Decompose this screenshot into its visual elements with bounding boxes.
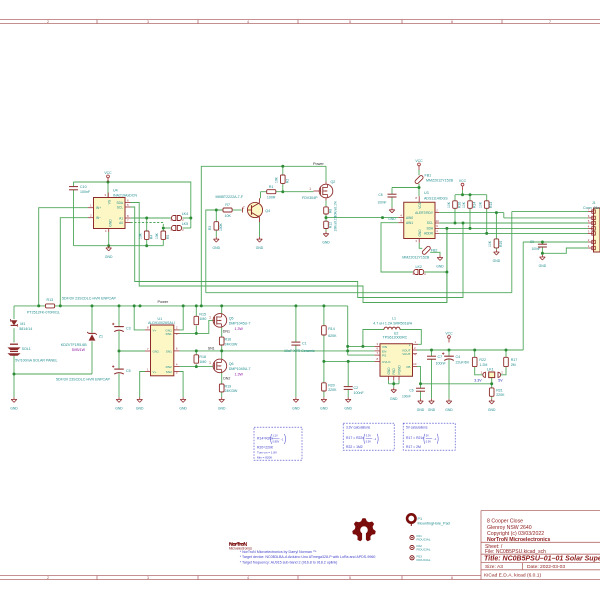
- wire R5 leads: [162, 228, 164, 246]
- svg-text:R17 = R22x: R17 = R22x: [346, 436, 364, 440]
- svg-text:SCL: SCL: [427, 221, 433, 225]
- ground at R12: [325, 232, 327, 234]
- svg-text:SN1: SN1: [166, 349, 172, 353]
- svg-text:100nF: 100nF: [436, 362, 447, 366]
- svg-text:R15: R15: [199, 312, 206, 316]
- svg-text:SCL: SCL: [117, 206, 123, 210]
- svg-text:GND: GND: [418, 229, 422, 237]
- jumper LK1: [474, 368, 503, 383]
- wire U2 ground pins: [389, 380, 400, 387]
- op-amp U3 ADS1114: [404, 191, 448, 238]
- wire R2 leads: [282, 166, 284, 191]
- svg-text:0.5V: 0.5V: [366, 439, 372, 443]
- svg-text:VIN: VIN: [382, 345, 387, 349]
- svg-text:4: 4: [247, 20, 249, 24]
- resistor R22: [472, 357, 487, 367]
- resistor R8: [324, 201, 338, 217]
- svg-text:R14: R14: [328, 327, 335, 331]
- wire ADDR row to J1 pin 3: [439, 232, 588, 234]
- ferrite bead FB2: [402, 246, 437, 260]
- svg-text:3: 3: [147, 576, 149, 580]
- wire enable net long run: [206, 292, 512, 294]
- svg-text:FB: FB: [407, 365, 411, 369]
- svg-text:5814/14: 5814/14: [19, 327, 32, 331]
- resistor R2: [275, 175, 290, 183]
- wire FB network row: [417, 366, 492, 383]
- resistor R4: [139, 231, 154, 239]
- svg-text:100nF: 100nF: [531, 247, 540, 251]
- svg-text:VCC: VCC: [445, 331, 453, 335]
- resistor R19: [219, 384, 237, 393]
- svg-text:GND: GND: [10, 406, 18, 410]
- wire SCL net U4 to U3/J1: [131, 207, 464, 298]
- resistor R3: [208, 222, 223, 231]
- svg-text:GND: GND: [493, 259, 501, 263]
- svg-text:GND: GND: [136, 406, 144, 410]
- svg-text:R17 = 2M: R17 = 2M: [406, 445, 421, 449]
- svg-text:100R: 100R: [267, 196, 276, 200]
- svg-text:Glenroy NSW 2640: Glenroy NSW 2640: [487, 525, 532, 531]
- svg-text:A1: A1: [119, 216, 123, 220]
- wire R25 leads: [495, 213, 497, 250]
- wire R18 leads: [195, 351, 197, 367]
- svg-text:V+: V+: [153, 328, 157, 332]
- pin stubs U3: [398, 196, 439, 243]
- wire R17 to LK1 right: [501, 350, 506, 375]
- svg-text:IN+: IN+: [96, 206, 101, 210]
- wire LK1 center to FB node: [491, 378, 493, 384]
- svg-text:J1: J1: [592, 201, 596, 205]
- wire VCC rail U4 section: [74, 182, 191, 228]
- wire DN2 row to Q6 gate: [180, 366, 213, 368]
- svg-text:VDD: VDD: [418, 201, 422, 208]
- svg-text:GN2: GN2: [153, 349, 160, 353]
- wire ALERT row jog to J1 pin 6: [439, 213, 588, 218]
- calculation note box 3.3V: [343, 423, 394, 450]
- svg-text:Q2: Q2: [331, 180, 336, 184]
- svg-text:Date: 2022-03-03: Date: 2022-03-03: [527, 564, 565, 570]
- svg-text:PT2512FK-070R01L: PT2512FK-070R01L: [27, 311, 60, 315]
- svg-text:GND: GND: [179, 406, 187, 410]
- wire C6 leads: [420, 384, 422, 399]
- svg-text:R26: R26: [457, 202, 461, 208]
- wire C7 leads: [431, 350, 433, 399]
- fiducial F03: [410, 554, 431, 561]
- wire Z1 leads: [91, 306, 93, 374]
- svg-text:DMP1045U-7: DMP1045U-7: [229, 367, 251, 371]
- svg-text:R1: R1: [269, 185, 274, 189]
- svg-text:GND: GND: [344, 406, 352, 410]
- svg-text:MMBT2222A-7-F: MMBT2222A-7-F: [216, 195, 244, 199]
- wire Q6 drain to R19 to GND: [221, 372, 223, 397]
- svg-text:C5: C5: [126, 369, 131, 373]
- svg-text:TPS61200DRC: TPS61200DRC: [383, 336, 408, 340]
- svg-text:C6: C6: [409, 389, 413, 393]
- wire C1 leads: [295, 306, 297, 397]
- svg-text:220K: 220K: [496, 393, 505, 397]
- svg-text:SDA: SDA: [426, 227, 433, 231]
- ground at R19: [221, 397, 223, 399]
- svg-text:C1: C1: [302, 342, 307, 346]
- wire Q6 source to SN1: [221, 351, 223, 360]
- wire GN2 row: [119, 350, 145, 352]
- power VCC pullups: [462, 186, 464, 190]
- svg-text:MountingHole_Pad: MountingHole_Pad: [418, 522, 450, 526]
- ground at U4: [108, 246, 110, 248]
- svg-text:6: 6: [451, 20, 453, 24]
- svg-text:FB2: FB2: [431, 249, 438, 253]
- wire A1 row to LK4: [131, 217, 171, 219]
- capacitor C2: [344, 386, 365, 395]
- wire LK2 strap vertical: [446, 228, 448, 302]
- svg-text:10K: 10K: [462, 201, 466, 208]
- svg-text:Conn_01x: Conn_01x: [583, 206, 600, 210]
- svg-text:5V/100mA SOLAR PANEL: 5V/100mA SOLAR PANEL: [15, 358, 57, 362]
- ground at solar: [13, 397, 15, 399]
- wire SN1 row: [180, 350, 348, 352]
- svg-text:PS: PS: [382, 354, 386, 358]
- svg-text:0.85V: 0.85V: [273, 440, 280, 444]
- svg-text:R8: R8: [328, 209, 332, 213]
- svg-text:R2: R2: [286, 179, 290, 183]
- capacitor C7: [427, 355, 446, 366]
- logo NorTroN: [229, 542, 252, 551]
- svg-text:2: 2: [47, 576, 49, 580]
- wire Power bottom rail: [14, 305, 348, 307]
- wire Q4 collector: [260, 192, 262, 199]
- svg-text:GND: GND: [320, 406, 328, 410]
- wire U1 V- to GND: [140, 372, 145, 398]
- ground at FB2: [439, 255, 441, 257]
- resistor R18: [194, 355, 206, 364]
- wire Q4 base drive: [206, 210, 242, 293]
- svg-text:10K: 10K: [488, 240, 492, 247]
- wire R21 leads: [491, 384, 493, 399]
- notes text: [240, 550, 376, 565]
- ground at C5: [118, 397, 120, 399]
- ground at C7: [431, 399, 433, 401]
- wire R12 to GND: [325, 229, 327, 232]
- wire Power top rail: [201, 166, 326, 306]
- svg-text:ALD910026SALI: ALD910026SALI: [148, 321, 175, 325]
- svg-text:IN−: IN−: [96, 216, 101, 220]
- svg-text:10K: 10K: [155, 232, 159, 239]
- wire R4 leads: [146, 218, 148, 246]
- svg-text:R23: R23: [489, 202, 493, 208]
- svg-text:Q4: Q4: [265, 209, 270, 213]
- svg-text:GND: GND: [115, 406, 123, 410]
- svg-text:FDV304P: FDV304P: [302, 196, 318, 200]
- ground at C2: [347, 397, 349, 399]
- jumper LK2: [414, 270, 418, 275]
- svg-text:LK1: LK1: [487, 368, 494, 372]
- svg-text:UVLO: UVLO: [382, 360, 391, 364]
- svg-text:* Target frequency: AU915 sub-: * Target frequency: AU915 sub-band 2 (91…: [240, 561, 338, 565]
- ground at Q4 emitter: [259, 237, 261, 239]
- svg-text:R5: R5: [166, 235, 170, 239]
- svg-text:10K: 10K: [275, 176, 279, 183]
- svg-text:DN2: DN2: [223, 377, 230, 381]
- svg-text:10: 10: [435, 219, 439, 223]
- wire U1 V+ top to Power: [134, 306, 145, 330]
- wire Q2 source to Power: [325, 166, 327, 181]
- wire R8-R12 node AIN0 row: [326, 214, 398, 221]
- wire J1 pin 7 enable drop: [512, 212, 588, 293]
- svg-text:Title: NC0B5PSU–01–01 Solar Su: Title: NC0B5PSU–01–01 Solar Super: [484, 556, 600, 563]
- svg-text:MMZ2012Y152B: MMZ2012Y152B: [426, 179, 454, 183]
- wire U4 GND row: [74, 232, 164, 246]
- svg-text:100K: 100K: [219, 222, 223, 231]
- wire R26 to SCL row: [454, 208, 456, 223]
- capacitor C3: [62, 297, 131, 332]
- ground at R21: [491, 399, 493, 401]
- svg-text:GND: GND: [445, 408, 453, 412]
- svg-text:100nF: 100nF: [354, 391, 365, 395]
- svg-text:FIDUCIAL: FIDUCIAL: [417, 558, 431, 562]
- svg-text:5DF/3V 23SCDLC-HVR ENPCAP: 5DF/3V 23SCDLC-HVR ENPCAP: [56, 378, 111, 382]
- calculation note box 5V: [403, 423, 455, 450]
- svg-text:R16: R16: [225, 338, 232, 342]
- wire L1 loop: [363, 330, 421, 347]
- svg-text:VAUX: VAUX: [402, 352, 410, 356]
- wire Q2 drain to R8: [325, 201, 327, 207]
- svg-text:2M: 2M: [511, 363, 516, 367]
- svg-text:C4: C4: [456, 355, 461, 359]
- svg-text:KiCad E.D.A. kicad (6.0.1): KiCad E.D.A. kicad (6.0.1): [484, 573, 541, 579]
- mounting hole P1: [407, 514, 450, 526]
- svg-text:GND: GND: [292, 406, 300, 410]
- wire C8 to VDD net: [392, 188, 419, 208]
- resistor R5: [155, 231, 170, 239]
- svg-text:R7: R7: [225, 203, 230, 207]
- wire Q5 drain to R16 to SN1: [221, 327, 223, 351]
- wire R24 to SDA row: [469, 208, 471, 228]
- transistor Q2 FDV304P: [302, 180, 335, 200]
- svg-text:C8: C8: [378, 193, 382, 197]
- resistor R17: [504, 357, 518, 367]
- connector J1: [583, 201, 600, 252]
- power VCC at VOUT: [448, 338, 450, 342]
- wire C5 leads: [118, 351, 120, 397]
- resistor R1: [267, 185, 276, 200]
- svg-text:ADDR: ADDR: [424, 232, 434, 236]
- wire R23 to ADDR row: [486, 208, 488, 233]
- op-amp U1 ALD910026: [148, 317, 175, 376]
- ground at U1 V-: [139, 397, 141, 399]
- wire R22 to LK1 left: [475, 350, 483, 375]
- resistor R25: [488, 239, 503, 248]
- title block: [481, 511, 600, 580]
- svg-text:100nF: 100nF: [377, 201, 386, 205]
- svg-text:U3: U3: [424, 191, 429, 195]
- svg-text:24K/3W: 24K/3W: [225, 342, 238, 346]
- svg-text:GND: GND: [256, 246, 264, 250]
- svg-text:10K: 10K: [224, 214, 231, 218]
- svg-text:R22 = 1M2: R22 = 1M2: [346, 445, 363, 449]
- svg-text:3.3V: 3.3V: [366, 433, 372, 437]
- resistor R13 shunt: [27, 298, 60, 314]
- svg-text:10K: 10K: [139, 232, 143, 239]
- resistor R7: [223, 203, 232, 218]
- svg-text:1M0: 1M0: [199, 317, 206, 321]
- svg-text:R25: R25: [499, 241, 503, 247]
- resistor R26: [447, 201, 462, 209]
- wire IN- to shunt right: [60, 218, 88, 306]
- svg-text:PAD: PAD: [392, 367, 396, 374]
- jumper LK4: [172, 216, 176, 221]
- svg-text:ALERT/RDY: ALERT/RDY: [415, 211, 434, 215]
- svg-text:GND: GND: [322, 241, 330, 245]
- svg-text:Turn-on = 1.8V: Turn-on = 1.8V: [257, 451, 277, 455]
- svg-text:6: 6: [451, 576, 453, 580]
- svg-text:1: 1: [309, 187, 311, 191]
- svg-text:10K: 10K: [447, 201, 451, 208]
- capacitor C5: [56, 365, 131, 381]
- svg-text:LK5: LK5: [182, 222, 188, 226]
- svg-text:GND: GND: [218, 406, 226, 410]
- svg-text:620K: 620K: [328, 334, 337, 338]
- svg-text:LK4: LK4: [182, 212, 188, 216]
- svg-text:100nF: 100nF: [80, 190, 91, 194]
- resistor R24: [462, 201, 477, 209]
- svg-text:KDZVTF1R5.6B: KDZVTF1R5.6B: [61, 343, 88, 347]
- wire GN1 to Power: [180, 306, 184, 330]
- ground at R3: [215, 237, 217, 239]
- svg-text:GND: GND: [428, 408, 436, 412]
- op-amp U4 INA219: [94, 188, 138, 228]
- svg-text:R21: R21: [496, 388, 503, 392]
- svg-text:Z1: Z1: [99, 334, 103, 338]
- wire VIN EN PS strap: [348, 306, 375, 355]
- svg-text:1.3W: 1.3W: [235, 373, 244, 377]
- wire VOUT rail: [417, 349, 523, 351]
- svg-text:GND: GND: [488, 408, 496, 412]
- svg-text:R20=220K: R20=220K: [257, 446, 274, 450]
- svg-text:R22: R22: [479, 358, 486, 362]
- wire Q5 source to Power: [221, 306, 223, 314]
- svg-text:* NorTroN Microelectronics by: * NorTroN Microelectronics by Darryl Nor…: [240, 550, 317, 554]
- svg-text:SOL1: SOL1: [22, 347, 31, 351]
- wire LK5 right to VCC drop: [182, 227, 190, 229]
- svg-text:3.3V calculations: 3.3V calculations: [346, 425, 371, 429]
- svg-text:DMP1045U-7: DMP1045U-7: [229, 322, 251, 326]
- svg-text:GND: GND: [388, 217, 396, 221]
- svg-text:8 Cooper Close: 8 Cooper Close: [487, 519, 523, 525]
- svg-text:DN1: DN1: [166, 332, 172, 336]
- svg-text:3: 3: [147, 20, 149, 24]
- fiducial F02: [410, 544, 431, 551]
- wire C3 leads: [118, 306, 120, 351]
- svg-text:R4: R4: [150, 235, 154, 239]
- wire C9 leads and J1 pin1: [542, 242, 588, 255]
- svg-text:10K: 10K: [479, 201, 483, 208]
- wire C10 leads: [73, 182, 75, 246]
- transistor Q6 DMP1045U: [209, 359, 250, 376]
- power VCC at U4: [107, 178, 109, 182]
- svg-text:VCC: VCC: [459, 179, 467, 183]
- wire AIN1 to LK2: [381, 223, 447, 272]
- svg-text:L: L: [409, 343, 411, 347]
- wire SDA row to J1 pin 4: [439, 227, 588, 229]
- wire A0 dashed to LK5: [131, 223, 171, 229]
- svg-text:AIN1: AIN1: [406, 221, 413, 225]
- capacitor C8: [377, 193, 396, 205]
- wire SDA net U4 to U3/J1: [131, 203, 447, 303]
- svg-text:1M0: 1M0: [199, 360, 206, 364]
- svg-text:C10: C10: [80, 185, 87, 189]
- svg-text:MMZ2012Y152B: MMZ2012Y152B: [402, 255, 430, 259]
- ground at C8: [391, 208, 393, 210]
- svg-text:10: 10: [413, 362, 417, 366]
- svg-text:DN2: DN2: [166, 365, 172, 369]
- svg-text:FIDUCIAL: FIDUCIAL: [417, 548, 431, 552]
- transistor Q4: [216, 195, 271, 222]
- svg-text:U4: U4: [113, 188, 118, 192]
- svg-text:FIDUCIAL: FIDUCIAL: [417, 538, 431, 542]
- pin stubs U1: [145, 326, 180, 375]
- svg-text:Q6: Q6: [229, 362, 234, 366]
- wire R3 leads: [215, 210, 217, 237]
- resistor R12: [324, 215, 338, 231]
- gear logo: [352, 518, 375, 541]
- resistor R23: [479, 201, 494, 209]
- svg-text:1.2M: 1.2M: [479, 363, 487, 367]
- svg-text:M1: M1: [20, 322, 25, 326]
- resistor R20: [322, 383, 338, 392]
- wire R14 R20 divider column: [323, 306, 325, 397]
- power VCC at FB1: [418, 166, 420, 170]
- svg-text:R12: R12: [328, 222, 332, 228]
- wire C4 leads: [448, 350, 450, 399]
- calculation note box R14: [254, 427, 302, 460]
- svg-text:VCC: VCC: [104, 171, 112, 175]
- wire C2 leads: [347, 361, 349, 397]
- svg-text:SN2: SN2: [166, 370, 172, 374]
- solar cell SOL1: [7, 344, 57, 362]
- svg-text:5V calculations: 5V calculations: [406, 425, 428, 429]
- svg-text:GND: GND: [109, 219, 113, 227]
- svg-text:1.3W: 1.3W: [235, 327, 244, 331]
- ground at C4: [448, 399, 450, 401]
- ground at C9: [541, 255, 543, 257]
- svg-text:1: 1: [209, 315, 211, 319]
- svg-text:10K/±0.1%: 10K/±0.1%: [334, 201, 338, 217]
- resistor R14: [322, 326, 338, 339]
- svg-text:VS: VS: [108, 199, 112, 204]
- sheet frame bottom border band: [0, 576, 600, 581]
- svg-text:R17: R17: [511, 358, 518, 362]
- svg-text:R20: R20: [328, 383, 335, 387]
- svg-text:1.2V: 1.2V: [273, 434, 279, 438]
- svg-text:Min = 820K: Min = 820K: [257, 455, 272, 459]
- wire solar column: [13, 306, 15, 397]
- svg-text:R3: R3: [208, 226, 212, 230]
- svg-text:A0: A0: [119, 221, 123, 225]
- svg-text:GND: GND: [539, 264, 547, 268]
- svg-text:GND: GND: [390, 397, 398, 401]
- capacitor C9: [530, 240, 547, 251]
- resistor R16: [219, 337, 237, 346]
- svg-text:R19: R19: [225, 384, 232, 388]
- zener Z1: [61, 332, 103, 352]
- svg-text:220K: 220K: [328, 388, 337, 392]
- svg-text:4.7 uH 1.2A SRR5018/H: 4.7 uH 1.2A SRR5018/H: [373, 321, 412, 325]
- svg-text:AIN0: AIN0: [406, 216, 413, 220]
- svg-text:C2: C2: [354, 386, 359, 390]
- svg-text:Power: Power: [158, 300, 169, 304]
- svg-text:SDA: SDA: [116, 201, 123, 205]
- svg-text:5DF/3V 23SCDLC-HVR ENPCAP: 5DF/3V 23SCDLC-HVR ENPCAP: [62, 297, 117, 301]
